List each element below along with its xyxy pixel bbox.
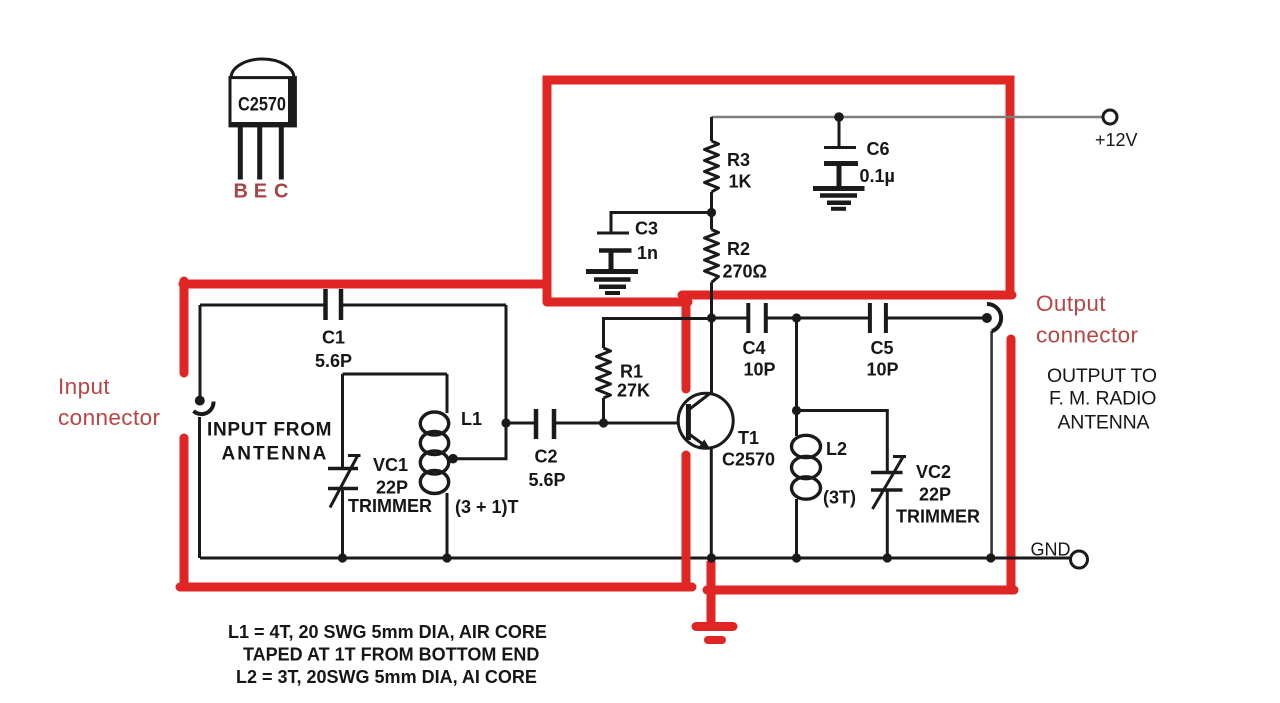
svg-text:C5: C5	[871, 338, 894, 358]
svg-text:R1: R1	[620, 362, 643, 382]
svg-text:C2570: C2570	[238, 95, 286, 116]
svg-text:ANTENNA: ANTENNA	[222, 444, 329, 465]
svg-text:27K: 27K	[617, 381, 650, 401]
trimmer VC1	[328, 455, 361, 508]
wire L1 branch	[446, 374, 449, 558]
svg-text:L2 = 3T, 20SWG 5mm DIA, AI COR: L2 = 3T, 20SWG 5mm DIA, AI CORE	[236, 667, 537, 687]
svg-text:22P: 22P	[919, 485, 951, 505]
resistor R2 270ohm	[705, 230, 719, 283]
wire L1 tap	[453, 423, 506, 459]
svg-text:C2570: C2570	[722, 450, 775, 470]
svg-text:L1: L1	[461, 409, 482, 429]
red highlight box top (supply section)	[547, 80, 1012, 302]
svg-text:C4: C4	[743, 338, 766, 358]
capacitor C1	[326, 289, 342, 320]
wire GND stub	[991, 557, 1070, 560]
svg-text:C1: C1	[322, 328, 345, 348]
svg-text:F. M. RADIO: F. M. RADIO	[1049, 388, 1156, 410]
svg-text:ANTENNA: ANTENNA	[1058, 412, 1150, 434]
svg-text:GND: GND	[1031, 540, 1071, 560]
svg-text:B: B	[234, 181, 248, 203]
output connector	[982, 304, 1001, 331]
svg-text:Output: Output	[1036, 291, 1106, 316]
wire tank top	[343, 373, 448, 376]
svg-text:TRIMMER: TRIMMER	[896, 507, 980, 527]
terminal GND	[1071, 551, 1088, 568]
svg-text:L2: L2	[826, 439, 847, 459]
wire C3 to divider node	[611, 213, 712, 234]
wire C6 drop	[838, 117, 841, 146]
terminal +12V	[1103, 110, 1117, 124]
svg-text:C3: C3	[635, 219, 658, 239]
capacitor C3	[597, 233, 632, 270]
wire R2 R3 column	[710, 117, 713, 319]
svg-text:10P: 10P	[867, 360, 899, 380]
wire R1 connections	[604, 319, 712, 424]
svg-text:TAPED AT 1T FROM BOTTOM END: TAPED AT 1T FROM BOTTOM END	[243, 645, 539, 665]
svg-text:+12V: +12V	[1095, 130, 1138, 150]
svg-text:R3: R3	[727, 150, 750, 170]
svg-text:L1 = 4T, 20 SWG 5mm DIA, AIR C: L1 = 4T, 20 SWG 5mm DIA, AIR CORE	[228, 622, 547, 642]
resistor R3 1K	[705, 141, 719, 192]
svg-text:C2: C2	[535, 447, 558, 467]
svg-text:connector: connector	[1036, 323, 1139, 348]
wire L2 column	[795, 318, 798, 558]
svg-text:R2: R2	[727, 239, 750, 259]
svg-text:VC1: VC1	[373, 455, 408, 475]
svg-text:(3T): (3T)	[823, 488, 856, 508]
capacitor C4	[748, 303, 766, 333]
wire collector column	[710, 319, 713, 559]
resistor R1 27K	[597, 348, 611, 398]
svg-text:5.6P: 5.6P	[315, 351, 352, 371]
svg-text:T1: T1	[738, 428, 759, 448]
trimmer VC2	[871, 456, 906, 509]
red ground symbol	[696, 561, 733, 640]
svg-text:1n: 1n	[637, 243, 658, 263]
svg-text:VC2: VC2	[916, 462, 951, 482]
svg-text:10P: 10P	[744, 360, 776, 380]
wire VC1 branch	[341, 374, 344, 558]
svg-text:connector: connector	[58, 405, 161, 430]
wire L2 to VC2	[797, 411, 888, 473]
svg-text:INPUT FROM: INPUT FROM	[207, 420, 332, 441]
capacitor C2	[536, 409, 554, 439]
ground (C3)	[586, 272, 638, 294]
svg-text:Input: Input	[58, 374, 110, 399]
transistor T1	[678, 392, 733, 450]
input connector	[194, 396, 214, 414]
svg-text:22P: 22P	[376, 478, 408, 498]
svg-text:0.1µ: 0.1µ	[860, 166, 895, 186]
wire node to C2 to base	[506, 422, 687, 425]
capacitor C5	[870, 303, 886, 333]
svg-text:C6: C6	[867, 139, 890, 159]
capacitor C6	[824, 148, 858, 188]
wire VC2 bottom	[886, 490, 889, 558]
red divider bar lower segment	[682, 455, 691, 587]
svg-text:C: C	[274, 181, 288, 203]
svg-text:OUTPUT TO: OUTPUT TO	[1047, 365, 1157, 387]
wire output connector drop	[990, 331, 993, 558]
inductor L1	[420, 412, 448, 494]
wire left vertical	[198, 305, 202, 558]
svg-text:5.6P: 5.6P	[529, 470, 566, 490]
wire top-left row	[200, 304, 506, 307]
svg-text:(3 + 1)T: (3 + 1)T	[455, 497, 519, 517]
red highlight box left (input section)	[180, 281, 692, 587]
svg-text:270Ω: 270Ω	[723, 262, 767, 282]
wire C1 to node	[505, 305, 508, 423]
ground (C6)	[813, 189, 865, 209]
transistor package TO-92	[230, 59, 295, 203]
wire output top row	[712, 317, 983, 320]
svg-text:E: E	[254, 181, 267, 203]
svg-text:TRIMMER: TRIMMER	[348, 496, 432, 516]
wire bottom rail	[200, 557, 991, 560]
red divider bar between boxes	[682, 296, 691, 389]
svg-text:1K: 1K	[729, 172, 752, 192]
wire +12V rail (gray)	[712, 116, 1104, 119]
inductor L2	[792, 435, 821, 499]
red highlight box right (output section)	[707, 339, 1014, 590]
